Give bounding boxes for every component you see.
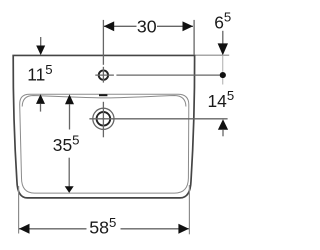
arrow 30 left bbox=[104, 21, 115, 31]
svg-text:65: 65 bbox=[214, 10, 231, 33]
svg-text:145: 145 bbox=[208, 88, 235, 111]
dimension line 30 bbox=[104, 25, 137, 27]
arrow 58.5 right bbox=[178, 224, 189, 234]
svg-text:355: 355 bbox=[53, 132, 80, 155]
arrow 58.5 left bbox=[19, 224, 30, 234]
58.5 extension line right bbox=[188, 185, 190, 234]
dim line 14.5 upper segment bbox=[222, 78, 224, 84]
tap hole centerline horizontal + leader to dot bbox=[95, 74, 114, 76]
dim line 6.5 (edge to dot) bbox=[222, 56, 224, 72]
drain centerline horizontal + leader bbox=[89, 118, 227, 120]
drain outer circle bbox=[93, 108, 114, 129]
arrow 11.5 down bbox=[40, 37, 42, 46]
svg-text:115: 115 bbox=[27, 62, 52, 85]
arrow 30 right bbox=[183, 21, 194, 31]
svg-text:30: 30 bbox=[137, 16, 157, 36]
arrow 11.5 up bbox=[36, 94, 45, 104]
drain centerline vertical bbox=[102, 102, 104, 138]
svg-text:585: 585 bbox=[89, 215, 116, 238]
dot at tap level bbox=[220, 72, 226, 78]
tap hole centerline vertical / 30 extension line left bbox=[102, 20, 104, 65]
basin bowl inner outline bbox=[20, 94, 189, 193]
drain inner circle bbox=[97, 112, 111, 126]
bowl back second contour (dip) bbox=[22, 96, 186, 107]
arrow 35.5 up bbox=[65, 94, 74, 104]
arrow 6.5 down bbox=[222, 31, 224, 44]
washbasin outer outline bbox=[13, 55, 194, 197]
58.5 extension line left bbox=[18, 186, 20, 234]
drain center dot bbox=[102, 118, 104, 120]
top edge extension for 6.5 bbox=[196, 54, 230, 56]
arrow 35.5 down bbox=[68, 158, 70, 187]
dimension line 58.5 bbox=[19, 228, 87, 230]
overflow slot dash bbox=[99, 94, 107, 96]
arrow 14.5 up bbox=[218, 119, 228, 130]
30 extension line right bbox=[193, 20, 195, 55]
tap hole circle bbox=[99, 70, 108, 79]
